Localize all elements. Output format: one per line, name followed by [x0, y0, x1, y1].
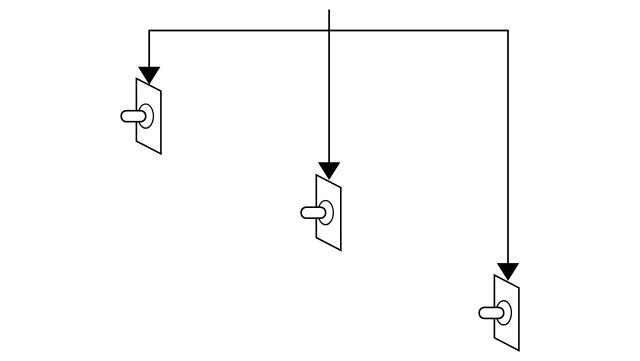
wire: top stub and middle drop	[328, 10, 330, 164]
arrowhead into S3	[497, 263, 519, 281]
switch S1	[121, 78, 161, 153]
wire: horizontal bus with left and right drops	[149, 31, 508, 265]
arrowhead into S2	[318, 162, 340, 180]
arrowhead into S1	[138, 67, 160, 85]
switch S3	[479, 275, 519, 350]
switch S2	[301, 175, 341, 250]
